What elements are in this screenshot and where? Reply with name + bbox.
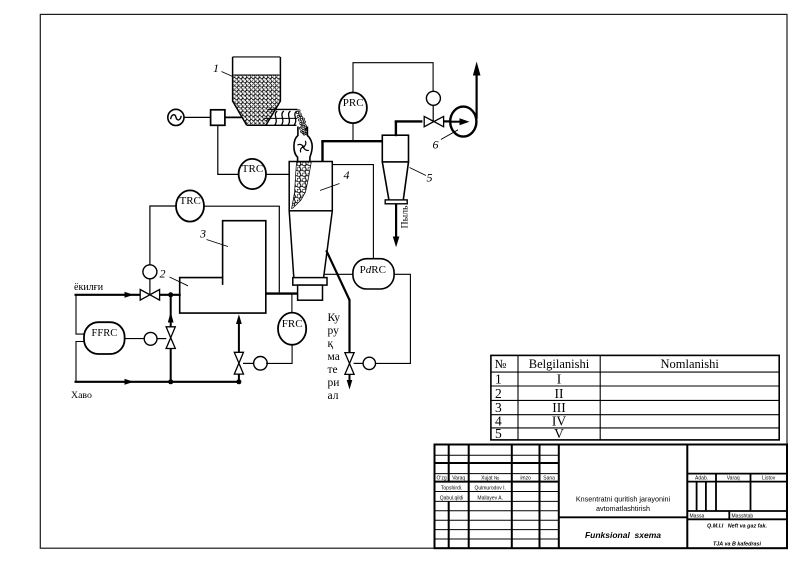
valve V3 on air riser <box>234 352 243 374</box>
svg-text:Varaq: Varaq <box>452 476 465 482</box>
duct dryer to cyclone <box>321 141 382 161</box>
svg-text:1: 1 <box>495 372 502 387</box>
falling granules into fan inlet <box>296 110 307 135</box>
legend table <box>491 355 779 440</box>
svg-text:2: 2 <box>160 267 166 281</box>
svg-text:V: V <box>554 426 564 441</box>
title block main verticals <box>468 445 470 549</box>
FFRC output to V2 actuator <box>125 338 145 340</box>
wire square to hopper feeder <box>225 116 242 118</box>
svg-text:Nomlanishi: Nomlanishi <box>661 357 720 371</box>
FFRC ratio controller <box>84 322 125 354</box>
svg-text:O'zg: O'zg <box>437 476 447 482</box>
cyclone gas outlet line <box>395 121 423 136</box>
legend table rows <box>495 372 566 441</box>
TRC2 (fuel valve controller) <box>176 190 204 221</box>
FRC output to V3 actuator <box>266 345 292 364</box>
svg-text:ри: ри <box>328 377 340 389</box>
dryer bottom flange <box>293 278 327 286</box>
junction fuel/air mix node <box>168 292 173 297</box>
svg-text:TRC: TRC <box>179 195 200 207</box>
dry material outlet line <box>326 250 352 389</box>
fuel line (yoqilgi) <box>74 282 181 298</box>
dryer bottom box <box>298 285 323 300</box>
cyclone dust discharge arrow <box>393 204 400 247</box>
exhaust valve V5 <box>424 116 443 126</box>
right section verticals <box>715 474 717 511</box>
left section horizontals <box>435 454 559 456</box>
svg-text:те: те <box>328 364 338 376</box>
svg-text:5: 5 <box>427 171 433 185</box>
svg-text:I: I <box>557 372 562 387</box>
svg-text:Massa: Massa <box>690 513 705 519</box>
svg-text:Q.M.I.I Neft va gaz fak.: Q.M.I.I Neft va gaz fak. <box>707 523 767 529</box>
screw flights <box>274 111 277 125</box>
air branch up to fuel line <box>168 295 174 382</box>
dryer falling material curtain <box>292 162 312 209</box>
screw shaft <box>264 117 297 119</box>
svg-text:Adab.: Adab. <box>695 476 708 482</box>
label 5 with leader <box>410 168 433 185</box>
svg-text:FRC: FRC <box>282 318 303 330</box>
svg-text:PdRC: PdRC <box>360 264 386 276</box>
dry material label (vertical) <box>328 312 341 402</box>
title block signature rows <box>440 486 506 502</box>
title block right header labels <box>690 476 776 520</box>
fuel valve V1 <box>140 290 159 301</box>
dryer cone <box>289 211 332 278</box>
svg-text:TJA va B kafedrasi: TJA va B kafedrasi <box>713 541 762 547</box>
svg-text:2: 2 <box>495 386 502 401</box>
junction air node 2 <box>236 379 241 384</box>
air line (havo) <box>71 379 239 401</box>
PRC output loop to exhaust valve actuator <box>353 63 433 93</box>
svg-text:Mallayev A.: Mallayev A. <box>477 495 503 501</box>
svg-text:II: II <box>555 386 564 401</box>
label 6 with leader <box>433 130 459 152</box>
label 1 with leader <box>213 61 233 77</box>
svg-text:ма: ма <box>328 351 340 363</box>
PdRC left tap from dryer cone <box>324 273 353 275</box>
dryer 4 top chamber <box>289 162 332 211</box>
right section horizontals <box>687 473 787 475</box>
title block frame <box>435 445 788 549</box>
svg-text:Varaq: Varaq <box>727 476 740 482</box>
V3 actuator <box>243 357 267 371</box>
cyclone 5 <box>382 135 408 204</box>
svg-text:Хаво: Хаво <box>71 390 92 401</box>
svg-text:4: 4 <box>344 168 350 182</box>
label 2 with leader <box>160 267 189 286</box>
line valve to blower <box>444 120 452 122</box>
fan housing (vase shape with impeller) <box>294 127 312 162</box>
svg-text:6: 6 <box>433 138 439 152</box>
junction air node 1 <box>168 379 173 384</box>
svg-text:FFRC: FFRC <box>92 328 118 339</box>
svg-text:Belgilanishi: Belgilanishi <box>529 357 590 371</box>
exhaust stack arrow <box>473 62 481 119</box>
svg-text:5: 5 <box>495 426 502 441</box>
label 3 with leader <box>199 227 228 247</box>
svg-text:қ: қ <box>328 338 334 350</box>
svg-text:3: 3 <box>199 227 206 241</box>
centre section divider <box>559 516 688 518</box>
blower 6 <box>450 107 476 137</box>
svg-text:ёкилғи: ёкилғи <box>74 282 104 293</box>
svg-text:Funksional sxema: Funksional sxema <box>585 530 661 540</box>
PRC tap from duct <box>352 123 354 140</box>
furnace 3 (L-shaped) <box>180 221 266 313</box>
TRC2 right lead down to duct <box>204 206 279 292</box>
svg-text:ру: ру <box>328 325 340 337</box>
label 4 with leader <box>320 168 350 191</box>
PRC pressure controller <box>339 93 367 124</box>
svg-text:Masshtab: Masshtab <box>732 513 754 519</box>
PdRC pressure drop controller <box>353 259 394 289</box>
hot gas duct furnace to dryer <box>265 292 298 294</box>
wire motor to controller square <box>184 116 211 118</box>
svg-text:Qabul.qildi: Qabul.qildi <box>440 495 464 501</box>
svg-text:Topshirdi.: Topshirdi. <box>441 486 462 492</box>
first column divider segments <box>448 445 450 482</box>
hopper granular fill <box>234 75 280 124</box>
svg-text:Xujat №: Xujat № <box>481 476 499 482</box>
V5 actuator <box>426 91 440 121</box>
svg-text:Knsentratni quritish jarayonin: Knsentratni quritish jarayonini <box>576 495 671 504</box>
title block faculty <box>707 523 767 547</box>
legend table header <box>495 357 720 371</box>
svg-text:Listov: Listov <box>762 476 776 482</box>
svg-text:1: 1 <box>213 61 219 75</box>
svg-text:№: № <box>495 357 507 371</box>
FRC tap from duct <box>291 295 293 313</box>
controller square <box>211 110 225 126</box>
V4 actuator <box>354 357 376 369</box>
svg-text:PRC: PRC <box>343 97 364 109</box>
svg-text:Sana: Sana <box>543 476 555 482</box>
PdRC tap from dryer <box>332 165 373 259</box>
valve V4 on dry material line <box>345 353 354 375</box>
title block small labels row <box>437 476 556 482</box>
hopper 1 <box>233 57 281 125</box>
FFRC impulse lines to fuel and air lines <box>76 295 84 382</box>
TRC2 left lead down to fuel valve actuator <box>150 206 176 265</box>
air riser to furnace <box>236 314 242 382</box>
TRC1 right lead down to dryer wall <box>266 173 289 175</box>
PdRC output to V4 actuator <box>376 274 411 363</box>
svg-text:Qulmurodov I.: Qulmurodov I. <box>474 486 505 492</box>
TRC1 (motor speed controller) <box>239 159 266 189</box>
motor M <box>168 109 184 125</box>
svg-text:TRC: TRC <box>242 163 263 175</box>
title block document name <box>576 495 671 514</box>
FRC flow controller <box>278 313 306 345</box>
svg-text:imzo: imzo <box>520 476 531 482</box>
svg-text:Ку: Ку <box>328 312 341 324</box>
svg-text:Пыль: Пыль <box>400 205 411 229</box>
svg-text:ал: ал <box>328 390 339 402</box>
screw feeder trough <box>247 109 298 125</box>
valve V2 on air branch <box>166 327 175 349</box>
fuel valve actuator <box>143 265 157 295</box>
wire square down to TRC1 <box>218 125 239 174</box>
V2 actuator <box>144 332 166 345</box>
svg-text:avtomatlashtirish: avtomatlashtirish <box>596 504 650 513</box>
